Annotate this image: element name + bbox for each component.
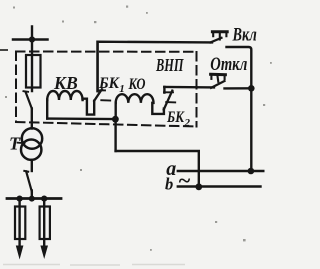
wire KO left drop <box>114 103 116 119</box>
contact BK2 upper stub <box>163 87 165 93</box>
svg-text:b: b <box>165 175 173 194</box>
arrow F2 out <box>16 246 24 260</box>
junction busbar center <box>29 196 35 202</box>
wire top rail <box>98 42 213 91</box>
coil KV <box>47 91 82 100</box>
wire transformer to S2 <box>31 160 33 171</box>
junction feeder tap <box>29 36 35 42</box>
line b <box>178 185 261 187</box>
junction rail to line a <box>248 168 255 175</box>
contact BK2 lower tick <box>166 101 175 103</box>
node supply tap crossbar <box>13 38 48 41</box>
svg-text:БК: БК <box>98 75 120 92</box>
wire KV left drop <box>46 100 48 119</box>
button Vkl blade <box>211 38 222 43</box>
wire feeder drop <box>31 27 33 92</box>
button Vkl plunger <box>212 32 227 40</box>
svg-text:КВ: КВ <box>53 73 78 93</box>
wire return node down <box>114 119 116 151</box>
contact BK1 blade <box>94 89 102 101</box>
svg-text:~: ~ <box>178 168 191 193</box>
line a <box>178 170 263 172</box>
wire Vkl to right rail <box>227 47 252 171</box>
wire return horizontal <box>116 151 199 187</box>
contact BK1 fixed tick <box>98 89 105 91</box>
wire S1 to transformer <box>31 109 33 129</box>
arrow F3 out <box>40 246 48 260</box>
svg-text:2: 2 <box>184 117 191 129</box>
svg-text:1: 1 <box>119 83 125 95</box>
button Otkl blade <box>211 81 225 88</box>
svg-text:БК: БК <box>166 109 185 126</box>
transformer T winding 2 <box>21 140 41 160</box>
svg-text:КО: КО <box>128 76 146 93</box>
button Otkl plunger <box>211 74 226 82</box>
contact BK2 fixed tick <box>164 91 173 93</box>
junction return node <box>112 116 119 123</box>
contact BK2 blade <box>164 91 173 110</box>
wire fuse F3 drop <box>43 199 45 248</box>
wire Otkl to rail <box>225 87 252 89</box>
junction Otkl rail <box>248 85 255 92</box>
wire KO right to BK2 dip <box>152 103 164 114</box>
junction busbar left <box>17 196 23 202</box>
switch S2 blade <box>24 170 28 173</box>
svg-text:Откл: Откл <box>210 55 247 75</box>
transformer T winding 1 <box>22 128 42 148</box>
fuse F3 <box>40 207 50 240</box>
busbar <box>7 197 61 200</box>
wire BK2 to Otkl <box>164 86 214 89</box>
enclosure VNP dashed box <box>16 52 197 127</box>
wire stray dash left <box>1 49 8 51</box>
fuse F1 <box>26 55 41 88</box>
fuse F2 <box>15 207 25 240</box>
switch S1 blade <box>24 90 29 93</box>
svg-text:ВНП: ВНП <box>155 55 184 75</box>
svg-text:Т: Т <box>9 133 21 153</box>
coil KO <box>116 94 154 103</box>
svg-text:Вкл: Вкл <box>232 26 257 46</box>
wire KV right to BK1 dip <box>83 99 95 115</box>
contact BK1 lower tick <box>101 99 110 101</box>
junction busbar right <box>41 196 47 202</box>
wire return bottom <box>47 117 115 120</box>
contact BK1 upper stub <box>96 42 98 91</box>
wire S2 to busbar <box>31 191 33 199</box>
wire fuse F2 drop <box>18 199 20 248</box>
junction on line b <box>195 183 202 190</box>
label T leader dash <box>18 142 25 145</box>
